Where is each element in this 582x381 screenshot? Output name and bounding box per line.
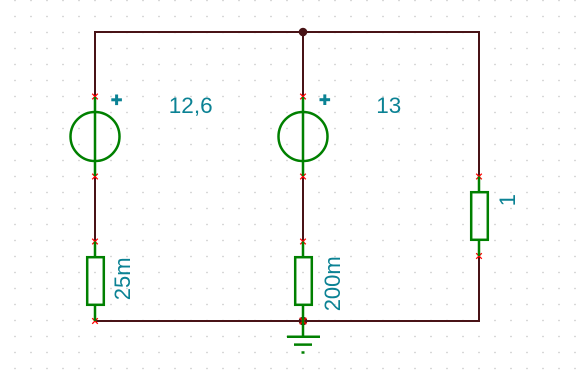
voltage source V2 (middle) xyxy=(279,97,328,176)
pin marker X: V1 minus pin xyxy=(92,174,98,180)
junction node N2 (ground node, bottom) xyxy=(299,317,308,326)
wire W10 bottom-right: ground node N2 to right branch xyxy=(303,320,480,322)
svg-text:1: 1 xyxy=(495,194,520,206)
resistor R3 (right, 1) xyxy=(471,177,488,257)
svg-text:13: 13 xyxy=(376,93,401,118)
wire W5 middle vertical upper: node N1 to V2 + pin xyxy=(302,32,304,97)
wire W4 left vertical lower: V1 - pin to R1 top pin xyxy=(94,176,96,242)
pin marker X: V2 minus pin xyxy=(300,174,306,180)
svg-text:25m: 25m xyxy=(110,257,135,300)
resistor R1 (left, 25m) xyxy=(87,242,104,322)
voltage source V1 (left) xyxy=(71,97,120,176)
pin marker X: R2 top pin xyxy=(300,239,306,245)
wire W6 middle vertical lower: V2 - pin to R2 top pin xyxy=(302,176,304,242)
wire W7 right vertical upper: top rail to R3 top pin xyxy=(478,31,480,177)
junction node N1 (top) xyxy=(299,28,308,37)
svg-text:12,6: 12,6 xyxy=(169,93,213,118)
resistor R2 (middle, 200m) xyxy=(295,242,312,322)
wire W8 right vertical lower: R3 bottom pin to bottom rail xyxy=(478,255,480,322)
polarity plus sign of V2 xyxy=(320,94,331,105)
wire W3 left vertical upper: top rail to V1 + pin xyxy=(94,31,96,97)
wire W1 top-left: node N1 to top of left branch xyxy=(94,31,303,33)
wire W2 top-right: node N1 to top of right branch xyxy=(303,31,480,33)
polarity plus sign of V1 xyxy=(111,95,122,106)
pin marker X: V1 plus pin xyxy=(92,94,98,100)
ground symbol at node N2 xyxy=(287,321,320,353)
pin marker X: R3 top pin xyxy=(476,174,482,180)
pin marker X: R1 top pin xyxy=(92,239,98,245)
pin marker X: R1 bottom pin xyxy=(92,318,98,324)
svg-text:200m: 200m xyxy=(320,256,345,311)
wire W9 bottom-left: R1 bottom pin to ground node N2 xyxy=(94,320,303,322)
pin marker X: V2 plus pin xyxy=(300,94,306,100)
pin marker X: R3 bottom pin xyxy=(476,253,482,259)
pin marker X: R2 bottom pin / ground pin at node N2 xyxy=(300,318,307,325)
